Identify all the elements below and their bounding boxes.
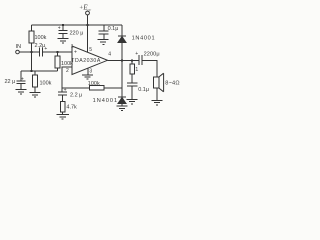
svg-text:5: 5 xyxy=(89,47,92,53)
svg-text:8~4Ω: 8~4Ω xyxy=(165,81,179,87)
svg-text:2.2 μ: 2.2 μ xyxy=(70,92,82,98)
node IN terminal xyxy=(16,50,20,54)
wire bias vertical xyxy=(31,52,33,71)
svg-text:0.1μ: 0.1μ xyxy=(138,87,149,93)
svg-text:+: + xyxy=(74,49,77,55)
svg-text:0.1μ: 0.1μ xyxy=(108,26,119,32)
wire pin3 stub xyxy=(87,68,89,74)
svg-text:TDA2030A: TDA2030A xyxy=(71,58,101,64)
svg-text:+: + xyxy=(21,76,24,82)
ground below R6 xyxy=(57,114,70,119)
ground below C6 xyxy=(127,99,138,104)
capacitor C3 220u (supply decoupling electrolytic) xyxy=(62,24,64,26)
ground below C4 xyxy=(98,40,109,45)
svg-text:IN: IN xyxy=(16,44,22,50)
junction bias lower node xyxy=(30,70,32,72)
svg-text:1N4001: 1N4001 xyxy=(93,98,118,104)
resistor R1 100k (input pull-up) xyxy=(31,25,33,31)
junction Zobel xyxy=(131,59,133,61)
svg-text:+Ecc: +Ecc xyxy=(79,5,91,13)
diode D2 1N4001 (ground to output) xyxy=(118,96,126,98)
svg-text:100k: 100k xyxy=(35,35,47,41)
wire C5 to speaker xyxy=(142,61,157,78)
capacitor C4 0.1u (supply HF decoupling) xyxy=(103,25,105,31)
capacitor C2 22u (bias decoupling) xyxy=(20,71,22,81)
junction input bias node xyxy=(30,51,32,53)
capacitor C5 2200u (output coupling) xyxy=(139,55,142,65)
resistor R4 1 ohm (Zobel) xyxy=(131,61,133,65)
ground below speaker xyxy=(152,100,163,105)
wire pin2 xyxy=(62,67,72,92)
wire feedback xyxy=(62,87,122,89)
ground pin3 xyxy=(82,75,93,79)
ground below D2 xyxy=(117,106,128,111)
wire IN to C1 xyxy=(19,51,39,53)
svg-text:220 μ: 220 μ xyxy=(70,31,84,37)
svg-text:1N4001: 1N4001 xyxy=(132,35,155,41)
svg-text:+: + xyxy=(58,26,61,32)
capacitor C6 0.1u (Zobel) xyxy=(127,83,138,86)
wire diode branch to output node and down xyxy=(121,43,123,98)
svg-text:4: 4 xyxy=(108,52,111,58)
wire output xyxy=(108,60,139,62)
svg-text:100k: 100k xyxy=(88,81,100,87)
svg-text:3: 3 xyxy=(89,69,92,75)
wire rail down to diode branch xyxy=(121,25,123,36)
wire C1 to pin1 xyxy=(42,51,72,53)
capacitor C1 2.2u (input coupling) xyxy=(40,48,43,57)
svg-text:22 μ: 22 μ xyxy=(5,79,16,85)
svg-text:+: + xyxy=(135,51,138,57)
svg-text:100k: 100k xyxy=(40,81,52,87)
ground below R3 xyxy=(30,93,41,98)
wire Vcc terminal to rail and down to pin5 xyxy=(87,15,89,52)
diode D1 1N4001 (output to +Vcc) xyxy=(118,35,126,37)
svg-text:1: 1 xyxy=(135,67,138,73)
resistor R3 100k (bias to ground) xyxy=(34,71,36,75)
svg-text:2200μ: 2200μ xyxy=(144,51,160,57)
svg-text:4.7k: 4.7k xyxy=(66,104,77,110)
svg-text:+: + xyxy=(44,46,47,52)
capacitor C7 2.2u (feedback DC block) xyxy=(58,92,67,95)
speaker LS1 xyxy=(154,77,159,88)
junction output/diode xyxy=(121,59,123,61)
ground below C2 xyxy=(16,90,27,95)
resistor R2 100k (to pin1 node) xyxy=(56,51,58,53)
op-amp U1 TDA2030A xyxy=(72,46,108,75)
resistor R5 100k (feedback) xyxy=(90,85,104,90)
svg-text:2: 2 xyxy=(66,68,69,74)
node Vcc terminal xyxy=(86,11,90,15)
resistor R6 4.7k (feedback to ground) xyxy=(60,101,65,112)
svg-text:+: + xyxy=(64,87,67,93)
ground below C3 xyxy=(58,39,69,44)
wire top supply rail xyxy=(32,24,123,26)
wire bias horizontal xyxy=(21,70,58,72)
junction rail/pin5 xyxy=(86,24,88,26)
